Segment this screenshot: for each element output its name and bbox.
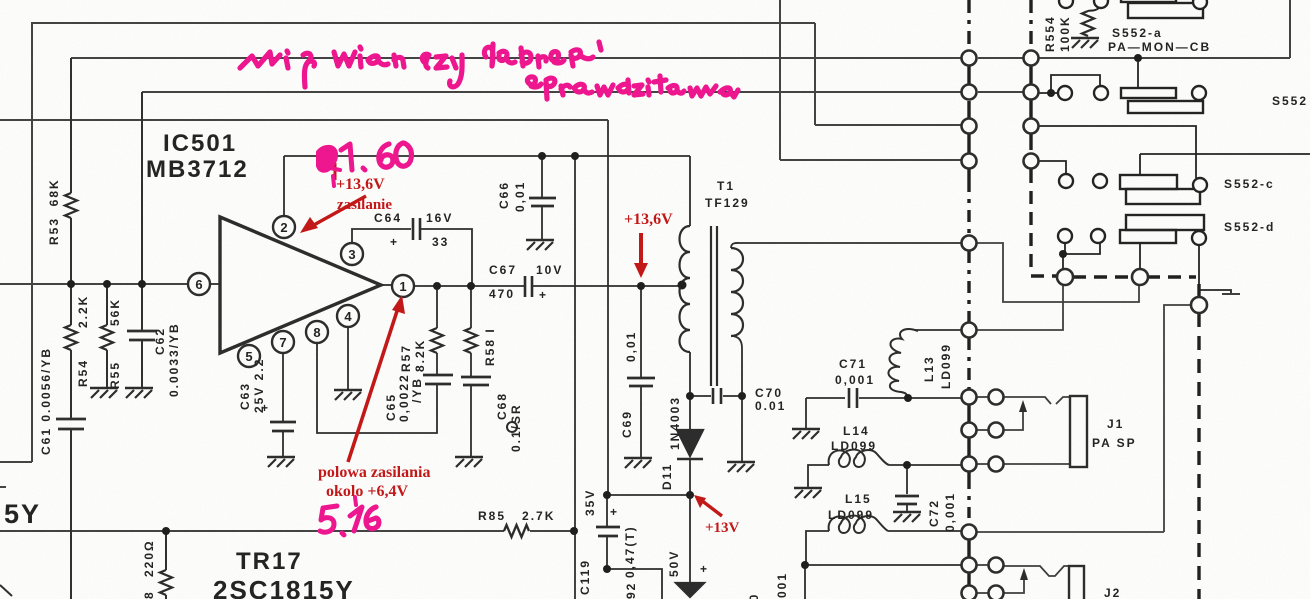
wire vertical x=575 filter net <box>574 156 576 599</box>
resistor R554 <box>1082 11 1094 36</box>
wire row92 junction to contacts <box>1039 92 1058 94</box>
wire C63 to ground <box>282 432 284 457</box>
boundary circle at 1140,277 <box>1132 269 1148 285</box>
wire x=1164 riser to S552-d route <box>1164 305 1192 532</box>
junction dot S552-d contact <box>1059 250 1067 258</box>
junction dot pin1/R57 <box>433 282 441 290</box>
capacitor C63 <box>270 422 296 431</box>
scan noise overlay <box>0 0 1 1</box>
wire y=125 to connector circle <box>815 124 961 126</box>
red arrow to pin 1 <box>348 308 398 462</box>
connector circle row593 x=996 <box>989 586 1004 599</box>
connector circle row464 x=996 <box>989 457 1004 472</box>
connector circle row464 x=969 <box>962 457 977 472</box>
board boundary dashed y=276 <box>1031 276 1196 277</box>
connector circle row126 x=1031 <box>1024 119 1039 134</box>
wire pin1 output net <box>414 285 681 287</box>
wire D11 node to bottom diode <box>689 495 691 583</box>
board boundary dash-dot column x=969 <box>967 0 970 50</box>
wire corner at left edge y=462 <box>0 461 32 463</box>
wire C61 down to bottom edge <box>70 430 72 599</box>
wire 0.001 cap branch to bottom edge <box>804 565 806 599</box>
wire C64 to node x=472 <box>421 229 472 286</box>
capacitor C61 <box>56 419 86 429</box>
red arrow to D11 node <box>701 500 722 516</box>
pin 6 circle <box>188 273 210 295</box>
capacitor C69 branch <box>640 286 642 377</box>
wire J2 switch arrow <box>1003 573 1024 593</box>
switch S552-a frame <box>1128 3 1203 18</box>
op-amp IC501 triangle <box>220 217 381 353</box>
switch S552-c frame <box>1126 189 1200 204</box>
wire R58 branch <box>470 286 472 328</box>
ground C69 <box>624 458 652 468</box>
board boundary dashed column x=1199 <box>1197 284 1200 599</box>
wire C71 left down <box>805 398 807 429</box>
connector circle row532 <box>962 525 977 540</box>
wire vertical x=71 upper section <box>70 58 72 193</box>
pink handwriting sprawdzilem <box>527 77 541 87</box>
wire row565 to J2 tip <box>1003 566 1069 576</box>
junction dot C119 bottom <box>603 565 611 573</box>
switch S552-a bar (cut at top edge) <box>1121 0 1176 2</box>
resistor R55 <box>101 325 113 350</box>
wire S552-b feed from y=58 <box>1137 58 1139 88</box>
transformer T1 core <box>711 226 717 386</box>
wire C71 to connector <box>859 397 961 399</box>
junction dot 220ohm on y=531 <box>162 527 170 535</box>
pink 1.60 annotation <box>318 147 340 171</box>
connector circle row243 <box>962 236 977 251</box>
resistor R68 220ohm vertical at x=166 <box>165 531 167 570</box>
junction dot C70 left <box>686 392 694 400</box>
wire bracket over S552-b contacts <box>1051 75 1100 93</box>
resistor R54 <box>65 325 77 350</box>
wire T1 secondary top lead <box>731 243 961 248</box>
wire y=92 between connector circles <box>978 91 1023 93</box>
jack J2 body <box>1069 566 1084 599</box>
junction dot pin1/T1 tap <box>678 281 687 290</box>
ground C72 <box>893 512 921 522</box>
wire C72 to ground <box>906 505 908 512</box>
junction dot supply/x575 <box>571 152 579 160</box>
ground R55 <box>90 388 118 398</box>
connector circle row430 x=996 <box>989 423 1004 438</box>
pin 1 circle <box>392 275 414 297</box>
wire y=120 net <box>0 119 608 121</box>
transformer T1 primary winding <box>680 226 691 352</box>
transformer T1 secondary winding <box>731 248 743 336</box>
connector circle row161 x=1031 <box>1024 154 1039 169</box>
wire R53 to pin6 node <box>70 218 72 325</box>
pin 7 circle <box>272 331 294 353</box>
wire row464 between connectors <box>977 463 989 465</box>
switch S552-a right contact circle <box>1193 0 1207 9</box>
wire row397 to J1 tip contact <box>1003 397 1070 404</box>
pin 8 circle <box>306 321 328 343</box>
wire R58 to C68 <box>470 353 472 376</box>
wire row593 between connectors <box>977 592 989 594</box>
ground T1 secondary <box>727 462 755 472</box>
terminal circle below C67 <box>507 422 517 432</box>
ground C66 <box>526 240 554 250</box>
pink handwriting nie wiem czy dobrze <box>240 52 280 68</box>
wire pin6 stub to triangle <box>210 283 220 285</box>
junction dot supply/C66 <box>538 152 546 160</box>
capacitor C72 branch <box>906 465 908 494</box>
wire pin2 riser <box>283 156 285 216</box>
wire vertical x=1290 to top edge <box>1289 0 1291 58</box>
junction dot R85/x574 <box>570 527 578 535</box>
connector circle row58 x=969 <box>962 51 977 66</box>
ground C68 <box>455 457 483 467</box>
switch S552-c bar <box>1120 175 1177 189</box>
wire bracket under S552-d contacts <box>1063 243 1100 254</box>
wire R57 branch <box>436 286 438 328</box>
wire y=58 right section to corner x=1290 <box>1039 57 1290 59</box>
pin 4 circle <box>337 305 359 327</box>
pin 3 circle <box>341 243 363 265</box>
wire T1 primary bottom to D11 <box>689 352 691 430</box>
wire R55 branch <box>106 284 108 325</box>
wire bottom-left corner diagonal <box>0 585 12 596</box>
wire y=160 from x=780 to connector circle <box>780 159 961 161</box>
switch S552-b bar <box>1121 88 1176 98</box>
connector circle row593 x=969 <box>962 586 977 599</box>
capacitor C72 <box>895 496 919 504</box>
switch S552-b right contact circle <box>1192 86 1206 100</box>
wire D11 cathode down <box>689 459 691 495</box>
wire pin4 to ground <box>347 327 349 390</box>
wire R55 to ground <box>106 350 108 388</box>
wire y=58 supply net <box>71 57 961 59</box>
wire row565 between connectors <box>977 564 989 566</box>
resistor R85 <box>504 525 529 537</box>
junction dot pin1/R58 <box>467 282 475 290</box>
junction dot D11 cathode node <box>686 491 694 499</box>
wire C119 bottom link y=569 <box>607 569 662 599</box>
wire C65 bottom loop to pin8 <box>317 343 437 433</box>
junction dot pin6/R55 <box>103 280 111 288</box>
connector circle row126 x=969 <box>962 119 977 134</box>
wire row464 to J1 sleeve <box>1003 463 1070 465</box>
wire J2 tip net y=565 <box>805 564 961 566</box>
wire row161 to S552-c left contact <box>1039 161 1066 174</box>
switch S552-b frame <box>1128 101 1203 113</box>
switch S552-d frame <box>1126 215 1204 230</box>
wire y=92 net <box>142 91 961 93</box>
switch S552-c left contact circles <box>1059 174 1073 188</box>
wire L13 node to S552-d contact route <box>977 284 1063 330</box>
wire S552-d bar bottom to boundary circle <box>1139 243 1141 270</box>
connector circle row565 x=969 <box>962 558 977 573</box>
wire T1 primary top lead <box>689 156 691 226</box>
wire C69 to ground <box>640 387 642 458</box>
wire S552-d contact node down to boundary circle <box>1062 254 1064 270</box>
switch S552-a left contact circles <box>1059 0 1073 8</box>
wire J1 switch arrow <box>1003 405 1023 430</box>
junction dot C70 right <box>738 392 746 400</box>
capacitor C62 <box>127 331 157 340</box>
capacitor C64 <box>413 218 420 240</box>
connector circle row430 x=969 <box>962 423 977 438</box>
wire R85 net y=531 <box>0 530 574 532</box>
connector circle row58 x=1031 <box>1024 51 1039 66</box>
ground pin4 <box>334 390 362 400</box>
pink tick below 1.60 <box>333 176 334 186</box>
switch S552-d bar <box>1120 230 1176 243</box>
connector circle row161 x=969 <box>962 154 977 169</box>
junction dot D11/C119 node left <box>603 491 611 499</box>
capacitor C67 <box>525 276 532 297</box>
capacitor C70 <box>713 388 721 404</box>
capacitor C66 plates <box>529 198 556 206</box>
capacitor C119 <box>596 527 620 536</box>
connector circle row397 x=969 <box>962 390 977 405</box>
wire top net from left border to x=815 <box>32 22 815 24</box>
capacitor C66 branch <box>541 156 543 197</box>
junction dot pin6/R54 <box>67 280 75 288</box>
wire C119 top link y=495 <box>607 494 690 496</box>
switch S552-d right contact circle <box>1192 231 1206 245</box>
diode D12 partial at bottom edge <box>676 583 704 597</box>
pink 5.16 annotation <box>320 506 337 532</box>
connector circle row92 x=969 <box>962 85 977 100</box>
wire row126 to S552-c contact <box>1039 126 1196 178</box>
junction dot L14/C72 <box>903 461 911 469</box>
wire vertical x=815 down to y=125 <box>814 23 816 125</box>
wire left border vertical x=32 <box>31 22 33 462</box>
switch S552-d left contact circles <box>1058 229 1072 243</box>
wire vertical x=608 from y=120 to C119 node <box>607 120 609 495</box>
wire L15 right to connector <box>888 530 961 532</box>
switch S552-b left contact circles <box>1058 86 1072 100</box>
wire C70 left <box>690 395 711 397</box>
ground L14 <box>794 488 822 498</box>
wire row397 between connectors <box>977 396 989 398</box>
wire R54 to C61 <box>70 350 72 418</box>
wire C119 stem <box>606 495 608 569</box>
switch S552-c right contact circle <box>1193 178 1207 192</box>
wire stub left edge y=487 <box>0 486 6 488</box>
junction dot L15/J2 net <box>801 561 809 569</box>
wire apex to pin1 <box>381 284 392 286</box>
boundary circle at 1065,277 <box>1057 269 1073 285</box>
wire T1 secondary bottom lead <box>731 336 742 390</box>
wire T1 secondary to S552-d route <box>977 243 1139 302</box>
jack J1 body <box>1070 396 1087 467</box>
wire C62 to ground <box>141 341 143 388</box>
wire S552-c feed y=154 <box>1140 154 1310 175</box>
inductor L13 <box>888 329 918 397</box>
red arrow down to C69 node <box>639 233 643 266</box>
red arrow to pin 2 <box>312 196 366 226</box>
pin 2 circle <box>273 216 295 238</box>
inductor L14 <box>829 450 889 467</box>
ground C63 <box>267 457 295 467</box>
pin 5 circle <box>238 345 260 367</box>
connector circle row397 x=996 <box>989 390 1004 405</box>
wire L13 top to connector <box>915 329 961 331</box>
wire R57 to C65 <box>436 353 438 374</box>
junction dot pin1/C69 <box>637 282 645 290</box>
wire C62 branch <box>141 92 143 330</box>
wire y=58 between connector circles <box>978 57 1023 59</box>
connector circle row565 x=996 <box>989 558 1004 573</box>
wire pin2 supply net y=156 <box>284 155 690 157</box>
ground C62 <box>125 388 153 398</box>
wire pin3 riser <box>352 229 411 243</box>
inductor L15 <box>829 516 888 533</box>
wire vertical x=780 from top edge down to y=160 <box>779 0 781 160</box>
wire L14 right to connector <box>889 464 961 466</box>
wire C70 right <box>723 390 742 396</box>
wire row532 from connector to corner x=1164 <box>977 531 1164 533</box>
wire pin6 input net y=284 <box>0 283 188 285</box>
resistor R58 <box>465 328 477 353</box>
capacitor C68 <box>461 377 491 385</box>
boundary circle at 1199,305 <box>1191 297 1207 313</box>
wire C66 to ground <box>541 207 543 240</box>
wire S552-d right contact stub with end bar <box>1199 245 1240 294</box>
wire secondary cold end to ground <box>741 396 743 462</box>
ground R554 <box>1071 38 1099 48</box>
red tick above <box>334 163 337 180</box>
diode D11 <box>677 430 703 456</box>
capacitor C71 <box>849 388 857 408</box>
wire C71 row left to ground corner <box>806 397 845 399</box>
junction dot S552-b feed <box>1134 54 1142 62</box>
connector circle row330 <box>962 323 977 338</box>
wire L14 left lead <box>808 465 829 488</box>
capacitor C65 <box>423 375 453 384</box>
wire row430 between connectors <box>977 429 989 431</box>
wire L15 left lead <box>806 531 829 565</box>
resistor R57 <box>431 328 443 353</box>
junction dot S552-b contact <box>1047 89 1055 97</box>
junction dot L13/C71 <box>904 394 912 402</box>
ground C71 <box>792 429 820 439</box>
connector circle row92 x=1031 <box>1024 85 1039 100</box>
wire pin7 to C63 <box>282 353 284 422</box>
resistor R53 <box>65 193 77 218</box>
wire C68 to ground <box>470 386 472 457</box>
resistor R554 lead <box>1088 8 1099 11</box>
junction dot pin6/C62 <box>138 280 146 288</box>
board boundary dash column x=1031 upper <box>1029 0 1032 52</box>
capacitor C69 plates <box>627 378 655 386</box>
